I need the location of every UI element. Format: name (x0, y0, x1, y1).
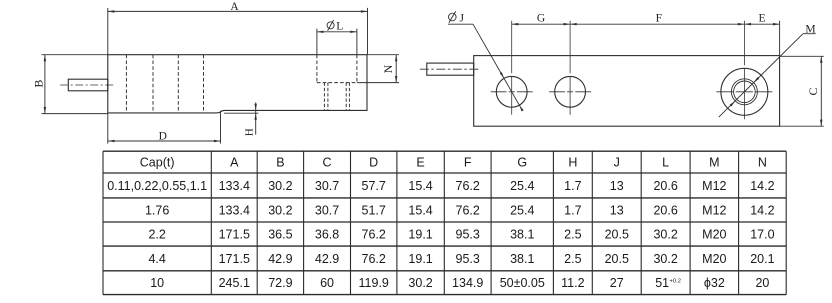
svg-text:1.7: 1.7 (564, 203, 581, 217)
svg-text:N: N (381, 64, 395, 73)
svg-text:60: 60 (320, 276, 334, 290)
svg-text:2.2: 2.2 (148, 227, 165, 241)
dimension table grid (103, 150, 786, 152)
threaded hole hidden lines (323, 83, 325, 111)
dimension C (780, 55, 824, 57)
svg-text:13: 13 (610, 179, 624, 193)
svg-text:57.7: 57.7 (362, 179, 386, 193)
svg-text:G: G (537, 13, 545, 25)
svg-text:E: E (758, 13, 765, 25)
hidden gauge-pocket dashed lines (125, 55, 127, 113)
svg-text:B: B (32, 80, 46, 88)
dimension E (779, 21, 781, 56)
svg-text:C: C (323, 156, 332, 170)
svg-text:H: H (244, 128, 256, 136)
svg-text:M20: M20 (702, 252, 726, 266)
svg-text:76.2: 76.2 (456, 179, 480, 193)
svg-text:1.76: 1.76 (145, 203, 169, 217)
svg-text:95.3: 95.3 (456, 252, 480, 266)
svg-text:A: A (230, 156, 239, 170)
counterbore hidden outline (316, 55, 318, 83)
svg-text:19.1: 19.1 (408, 252, 432, 266)
svg-text:133.4: 133.4 (219, 203, 250, 217)
svg-text:15.4: 15.4 (408, 203, 432, 217)
svg-text:30.7: 30.7 (315, 203, 339, 217)
cable centerline (60, 84, 115, 86)
svg-text:M20: M20 (702, 227, 726, 241)
svg-text:B: B (276, 156, 284, 170)
svg-text:76.2: 76.2 (456, 203, 480, 217)
svg-text:0.11,0.22,0.55,1.1: 0.11,0.22,0.55,1.1 (107, 179, 207, 193)
svg-text:95.3: 95.3 (456, 227, 480, 241)
svg-text:D: D (369, 156, 378, 170)
svg-text:C: C (806, 87, 820, 95)
svg-text:38.1: 38.1 (510, 227, 534, 241)
svg-text:J: J (460, 12, 465, 24)
svg-text:72.9: 72.9 (268, 276, 292, 290)
svg-text:119.9: 119.9 (359, 276, 389, 290)
svg-text:+0.2: +0.2 (670, 279, 681, 285)
cable stub (side view) (68, 79, 108, 91)
svg-text:19.1: 19.1 (408, 227, 432, 241)
cable centerline (plan) (420, 68, 481, 70)
svg-text:M12: M12 (702, 179, 726, 193)
cable stub (plan view) (427, 63, 474, 75)
svg-text:50±0.05: 50±0.05 (500, 276, 545, 290)
dimension G (511, 21, 513, 74)
svg-text:11.2: 11.2 (561, 276, 584, 290)
svg-text:20.5: 20.5 (605, 227, 629, 241)
dimension H (224, 112, 259, 114)
svg-text:171.5: 171.5 (219, 227, 250, 241)
svg-text:245.1: 245.1 (219, 276, 250, 290)
dimension &#216;L (317, 31, 357, 33)
mounting hole 2 (555, 76, 586, 107)
svg-text:36.8: 36.8 (315, 227, 339, 241)
svg-text:D: D (159, 131, 167, 143)
svg-text:133.4: 133.4 (219, 179, 250, 193)
svg-text:17.0: 17.0 (750, 227, 774, 241)
svg-text:76.2: 76.2 (362, 227, 386, 241)
svg-text:30.2: 30.2 (653, 252, 677, 266)
svg-text:20.5: 20.5 (605, 252, 629, 266)
svg-text:F: F (464, 156, 472, 170)
svg-text:20.6: 20.6 (653, 179, 677, 193)
svg-text:30.2: 30.2 (408, 276, 432, 290)
svg-text:20.1: 20.1 (750, 252, 774, 266)
svg-text:36.5: 36.5 (268, 227, 292, 241)
svg-text:171.5: 171.5 (219, 252, 250, 266)
svg-text:25.4: 25.4 (510, 203, 534, 217)
svg-text:10: 10 (150, 276, 164, 290)
svg-text:14.2: 14.2 (750, 179, 774, 193)
svg-text:2.5: 2.5 (564, 252, 581, 266)
svg-text:A: A (230, 1, 239, 13)
dimension D (107, 113, 109, 144)
svg-text:2.5: 2.5 (564, 227, 581, 241)
dimension B (42, 54, 108, 56)
svg-text:76.2: 76.2 (362, 252, 386, 266)
dimension N (367, 54, 399, 56)
threaded hole M (counterbore + thread circles) (721, 68, 768, 115)
svg-text:F: F (656, 13, 662, 25)
svg-text:27: 27 (610, 276, 624, 290)
svg-text:15.4: 15.4 (408, 179, 432, 193)
svg-text:30.2: 30.2 (268, 203, 292, 217)
leader &#216;J (hole diameter callout) (448, 23, 473, 25)
svg-text:38.1: 38.1 (510, 252, 534, 266)
svg-text:G: G (517, 156, 527, 170)
svg-text:Cap(t): Cap(t) (140, 156, 175, 170)
svg-text:M: M (709, 156, 719, 170)
leader M (thread callout) (803, 33, 816, 35)
svg-text:1.7: 1.7 (564, 179, 581, 193)
svg-text:M: M (805, 24, 815, 36)
svg-text:51: 51 (655, 276, 669, 290)
svg-text:20: 20 (755, 276, 769, 290)
svg-text:30.7: 30.7 (315, 179, 339, 193)
svg-text:ϕ32: ϕ32 (704, 276, 725, 290)
svg-text:L: L (336, 20, 343, 32)
svg-text:25.4: 25.4 (510, 179, 534, 193)
svg-text:E: E (416, 156, 424, 170)
svg-text:42.9: 42.9 (268, 252, 292, 266)
svg-text:20.6: 20.6 (653, 203, 677, 217)
svg-text:30.2: 30.2 (268, 179, 292, 193)
dimension A (107, 8, 109, 55)
svg-text:134.9: 134.9 (452, 276, 483, 290)
load cell body (plan view) outline (474, 56, 780, 127)
svg-text:13: 13 (610, 203, 624, 217)
svg-text:N: N (758, 156, 767, 170)
dimension F (743, 21, 745, 66)
svg-text:51.7: 51.7 (362, 203, 386, 217)
svg-text:42.9: 42.9 (315, 252, 339, 266)
svg-text:M12: M12 (702, 203, 726, 217)
load cell body (side view) outline (108, 55, 367, 113)
svg-text:J: J (614, 156, 620, 170)
svg-text:14.2: 14.2 (750, 203, 774, 217)
mounting hole 1 (496, 76, 527, 107)
svg-text:4.4: 4.4 (148, 252, 165, 266)
svg-text:30.2: 30.2 (653, 227, 677, 241)
svg-text:L: L (662, 156, 669, 170)
svg-text:H: H (568, 156, 577, 170)
